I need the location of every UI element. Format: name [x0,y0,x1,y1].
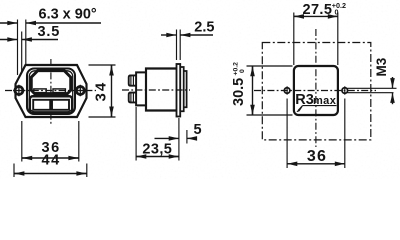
svg-text:27.5: 27.5 [303,2,333,18]
svg-text:5: 5 [194,122,202,138]
svg-text:M3: M3 [374,57,389,76]
svg-text:23,5: 23,5 [142,142,172,158]
svg-text:3.5: 3.5 [38,24,61,40]
svg-text:36: 36 [307,148,327,165]
svg-text:R3: R3 [295,92,314,108]
svg-text:max: max [313,95,337,107]
svg-text:0: 0 [335,8,339,17]
svg-text:30.5: 30.5 [231,78,247,106]
svg-text:6.3 x 90°: 6.3 x 90° [39,6,97,22]
svg-text:44: 44 [42,152,61,168]
svg-text:2.5: 2.5 [194,19,214,35]
svg-text:0: 0 [239,69,246,73]
svg-text:34: 34 [92,81,109,102]
